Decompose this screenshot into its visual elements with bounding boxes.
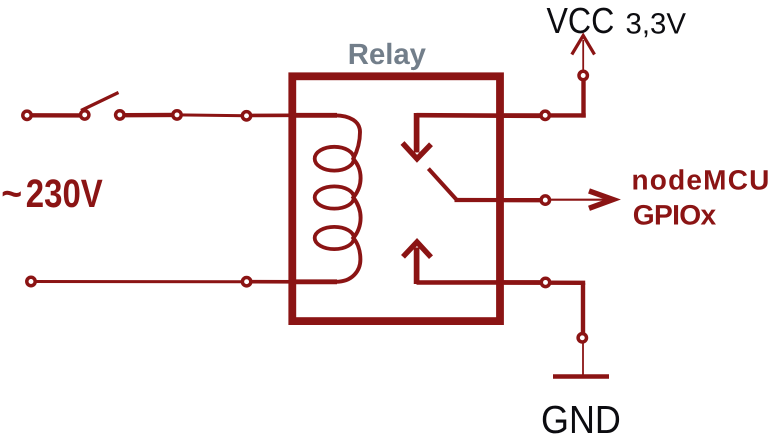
- contact bottom wire (to GND terminal): [417, 280, 541, 285]
- node terminal ring T5: [242, 112, 250, 120]
- wire GND branch horizontal: [504, 280, 585, 285]
- wire VCC branch horizontal: [504, 113, 586, 117]
- wire L2 into box: [247, 280, 300, 284]
- wire L1 segment b (switch to T4): [120, 113, 177, 118]
- node terminal ring T7: [242, 278, 250, 286]
- wire GPIO stub: [504, 199, 540, 203]
- svg-text:Relay: Relay: [348, 38, 427, 71]
- contact blade (movable): [428, 169, 456, 200]
- wire L2 (mains bottom): [31, 280, 247, 283]
- node terminal ring T8: [541, 111, 549, 119]
- GPIO arrow shaft: [551, 199, 607, 201]
- wire L1 segment a (mains top, left of switch): [27, 113, 85, 117]
- GND lead: [582, 343, 584, 376]
- contact common wire (middle, to GPIO): [455, 198, 541, 202]
- svg-text:GPIOx: GPIOx: [633, 198, 717, 230]
- node terminal ring T9 (VCC): [579, 71, 587, 79]
- svg-text:VCC: VCC: [547, 0, 615, 41]
- svg-text:3,3V: 3,3V: [626, 8, 687, 41]
- svg-text:230V: 230V: [26, 172, 103, 216]
- coil K1 loop 1: [315, 147, 354, 171]
- GPIO arrow head: [589, 191, 613, 208]
- contact fixed pin arrow down shaft: [414, 113, 420, 153]
- node terminal ring T3 (switch throw): [116, 111, 124, 119]
- coil K1 wavy spine: [335, 115, 361, 281]
- svg-text:~: ~: [1, 172, 22, 216]
- wire GND branch vertical: [581, 283, 585, 334]
- node terminal ring T2 (switch pivot): [81, 111, 89, 119]
- node terminal ring T10 (GPIO): [541, 196, 549, 204]
- coil K1 loop 2: [315, 186, 354, 208]
- ground bar: [553, 374, 609, 379]
- VCC arrow shaft: [582, 40, 584, 71]
- VCC arrow head: [572, 36, 595, 55]
- contact fixed pin arrow up shaft: [414, 248, 420, 285]
- contact fixed pin arrow up head: [403, 242, 431, 257]
- node terminal ring T1: [23, 111, 31, 119]
- switch S1 blade: [81, 93, 119, 111]
- node terminal ring T6: [27, 277, 35, 285]
- contact common wire (top, to VCC terminal): [417, 113, 541, 118]
- svg-text:GND: GND: [541, 399, 621, 440]
- relay box outline: [292, 76, 500, 321]
- svg-text:nodeMCU: nodeMCU: [632, 164, 771, 195]
- node terminal ring T11: [541, 278, 549, 286]
- contact fixed pin arrow down head: [403, 143, 432, 159]
- coil K1 top lead: [294, 113, 337, 118]
- wire L1 segment c (T4 to T5, thin): [177, 113, 247, 117]
- node terminal ring T12 (GND): [578, 334, 586, 342]
- wire VCC branch vertical: [581, 79, 585, 118]
- node terminal ring T4: [173, 111, 181, 119]
- wire L1 segment d (T5 into relay box): [247, 114, 297, 118]
- coil K1 bottom lead: [294, 279, 337, 284]
- coil K1 loop 3: [315, 227, 354, 249]
